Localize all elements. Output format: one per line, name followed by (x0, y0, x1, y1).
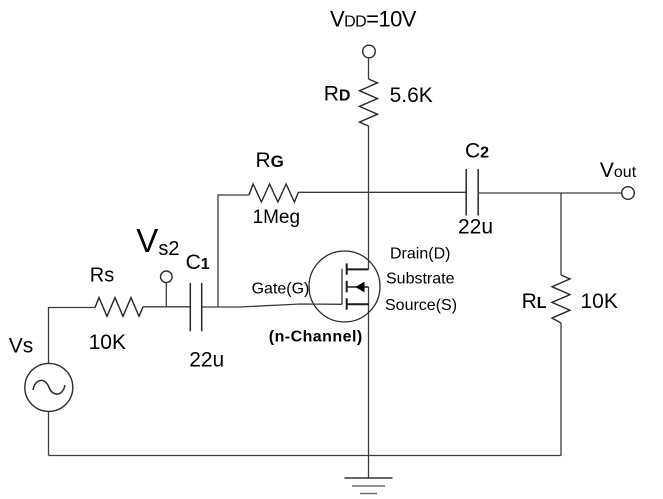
svg-text:Rs: Rs (90, 265, 114, 287)
wire VDD terminal to RD (368, 58, 370, 79)
svg-text:Vout: Vout (600, 159, 637, 182)
transistor Q1 n-channel MOSFET (309, 251, 380, 322)
svg-text:1Meg: 1Meg (253, 207, 301, 228)
svg-text:RG: RG (256, 149, 284, 172)
svg-text:Vs2: Vs2 (136, 222, 179, 260)
capacitor C2 (465, 169, 467, 216)
svg-text:22u: 22u (458, 216, 493, 239)
svg-text:22u: 22u (189, 349, 224, 372)
svg-text:10K: 10K (89, 331, 126, 354)
svg-text:5.6K: 5.6K (390, 84, 433, 107)
resistor RL (552, 275, 570, 323)
wire Vout node to RL (560, 193, 562, 275)
svg-text:10K: 10K (581, 290, 618, 313)
wire RL to bottom rail (560, 323, 562, 456)
terminal VDD (363, 45, 376, 58)
resistor RG (249, 184, 299, 202)
terminal Vout (622, 187, 635, 200)
svg-text:(n-Channel): (n-Channel) (269, 328, 363, 345)
svg-text:C2: C2 (465, 140, 489, 163)
wire C2 to Vout (478, 192, 622, 194)
source Vs (25, 363, 73, 411)
svg-text:Substrate: Substrate (386, 270, 455, 287)
resistor RD (360, 79, 378, 126)
wire Rs to C1 (143, 306, 190, 308)
wire C1 to gate junction (202, 306, 218, 308)
wire source node to ground (368, 287, 370, 478)
svg-text:RL: RL (522, 290, 547, 313)
terminal Vs2 (161, 271, 173, 307)
svg-text:Vs: Vs (9, 334, 34, 357)
svg-text:VDD=10V: VDD=10V (330, 7, 417, 32)
wire RG left branch vertical (218, 195, 249, 307)
wire Vs to bottom rail (48, 411, 50, 455)
capacitor C1 (189, 283, 191, 331)
wire RG to C2 (299, 191, 467, 193)
wire Rs corner to Vs (49, 308, 96, 364)
svg-text:Source(S): Source(S) (385, 297, 457, 314)
svg-text:Gate(G): Gate(G) (252, 280, 310, 297)
wire RD to drain node (368, 126, 370, 269)
resistor Rs (95, 298, 143, 317)
svg-text:C1: C1 (186, 251, 210, 274)
wire gate to C1/RG junction (218, 304, 342, 307)
ground (345, 478, 393, 494)
wire bottom rail (49, 455, 562, 457)
svg-text:Drain(D): Drain(D) (390, 245, 450, 262)
svg-text:RD: RD (324, 83, 351, 106)
